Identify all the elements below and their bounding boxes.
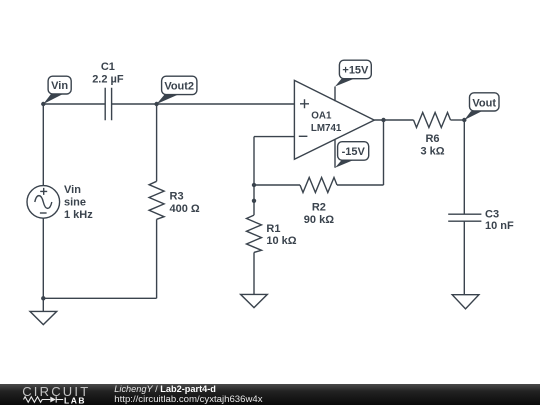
resistor R6 — [414, 113, 451, 158]
svg-text:C1: C1 — [101, 61, 115, 73]
svg-text:R2: R2 — [312, 201, 326, 213]
node Vout (dot) — [462, 118, 466, 122]
wire: C3 bottom to ground — [463, 221, 465, 295]
wire: op-amp output to R6 — [374, 119, 413, 121]
footer bar — [0, 384, 540, 405]
svg-text:C3: C3 — [485, 208, 499, 220]
svg-text:Vout: Vout — [472, 97, 496, 109]
wire: R3 bottom stub — [156, 219, 158, 298]
wire: Vout node down to C3 — [463, 120, 465, 214]
node Vin (dot) — [41, 102, 45, 106]
svg-text:R6: R6 — [425, 133, 439, 145]
capacitor C1 — [92, 61, 124, 120]
svg-text:90 kΩ: 90 kΩ — [304, 214, 334, 226]
wire: op-amp +15V pin — [334, 87, 336, 102]
wire: R2 right stub to output column — [337, 184, 384, 186]
resistor R3 — [149, 181, 200, 219]
flag label Vout — [464, 93, 499, 120]
svg-text:10 nF: 10 nF — [485, 220, 514, 232]
svg-text:+15V: +15V — [342, 65, 369, 77]
wire: R3 top stub — [156, 104, 158, 181]
wire: op-amp - input to feedback column — [254, 136, 294, 138]
wire: R6 right stub to Vout node — [451, 119, 465, 121]
svg-text:10 kΩ: 10 kΩ — [266, 235, 296, 247]
svg-text:LichengY / Lab2-part4-d: LichengY / Lab2-part4-d — [114, 384, 216, 394]
wire bottom rail — [43, 297, 156, 299]
op-amp OA1 LM741 — [294, 80, 374, 159]
svg-text:R1: R1 — [266, 223, 280, 235]
svg-text:LM741: LM741 — [311, 123, 342, 134]
svg-text:-15V: -15V — [342, 146, 366, 158]
wire: R2 left stub — [254, 184, 300, 186]
wire: ground stub at bottom rail — [42, 298, 44, 311]
ground (bottom rail) — [30, 311, 57, 324]
ground (C3) — [452, 295, 479, 309]
flag label +15V — [335, 60, 371, 86]
voltage source V1 (Vin sine 1 kHz) — [27, 184, 93, 221]
node Vout2 (dot) — [154, 102, 158, 106]
svg-text:400 Ω: 400 Ω — [170, 203, 200, 215]
wire: op-amp -15V pin — [334, 139, 336, 168]
wire: R1 top stub — [253, 201, 255, 215]
flag label Vin — [43, 76, 71, 104]
capacitor C3 — [448, 208, 514, 232]
svg-text:sine: sine — [64, 196, 86, 208]
footer CircuitLab logo — [22, 384, 91, 405]
svg-text:http://circuitlab.com/cyxtajh6: http://circuitlab.com/cyxtajh636w4x — [114, 394, 262, 405]
node op-amp output (dot) — [381, 118, 385, 122]
svg-text:Vin: Vin — [64, 184, 81, 196]
svg-text:LAB: LAB — [64, 395, 86, 405]
node R1 top junction (dot) — [252, 199, 256, 203]
wire: Vin node down to V1 top — [42, 104, 44, 186]
flag label Vout2 — [157, 76, 197, 104]
node feedback junction (dot) — [252, 183, 256, 187]
svg-text:Vout2: Vout2 — [164, 80, 194, 92]
svg-text:OA1: OA1 — [311, 110, 332, 121]
svg-text:3 kΩ: 3 kΩ — [420, 145, 444, 157]
svg-text:2.2 µF: 2.2 µF — [92, 73, 124, 85]
svg-text:R3: R3 — [170, 190, 184, 202]
footer credit text — [114, 384, 262, 405]
resistor R2 — [300, 178, 337, 226]
wire: output column vertical (feedback) — [383, 120, 385, 185]
wire: V1 bottom down to bottom rail — [42, 218, 44, 298]
svg-text:Vin: Vin — [51, 80, 68, 92]
ground (R1) — [241, 294, 268, 307]
node bottom rail (dot) — [41, 296, 45, 300]
wire: feedback column vertical — [253, 137, 255, 201]
wire top left: Vin node to C1 — [43, 103, 105, 105]
resistor R1 — [247, 215, 297, 252]
flag label -15V — [335, 142, 369, 168]
wire: R1 bottom stub to ground — [253, 252, 255, 294]
svg-text:1 kHz: 1 kHz — [64, 209, 93, 221]
wire: C1 to op-amp + input — [112, 103, 295, 105]
